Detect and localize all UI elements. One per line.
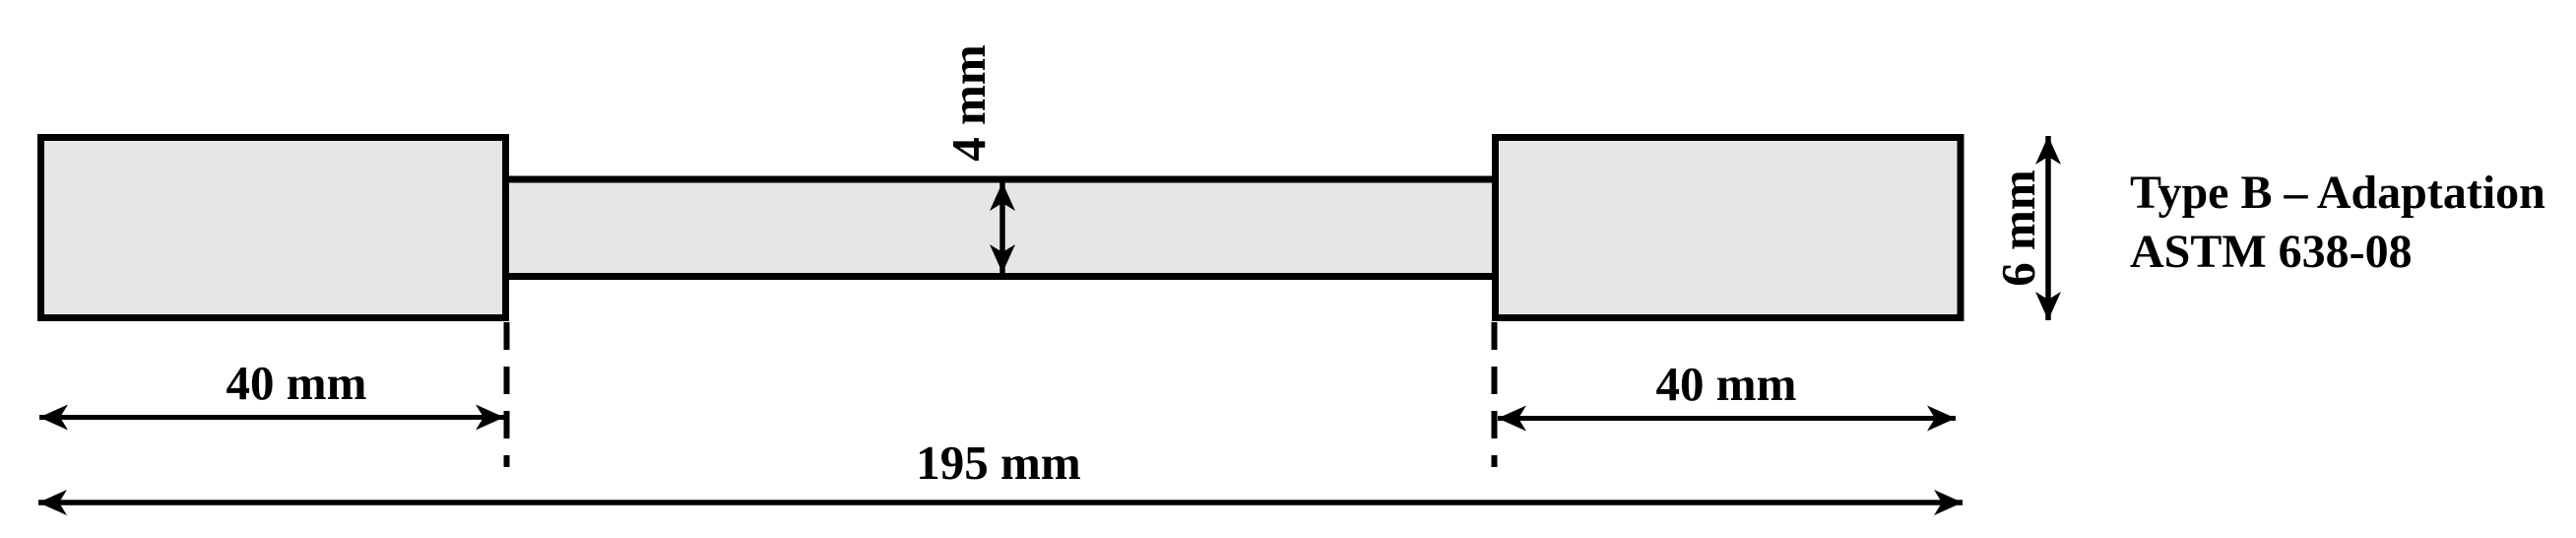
right grip tab rectangle: [1496, 138, 1962, 318]
svg-text:6 mm: 6 mm: [1991, 169, 2045, 286]
6 mm vertical dimension arrow: [2045, 136, 2051, 320]
right 40 mm dimension arrow: [1498, 416, 1956, 421]
gauge bar bottom edge line: [505, 273, 1496, 280]
4 mm vertical dimension arrow: [999, 182, 1005, 273]
svg-text:Type B – Adaptation: Type B – Adaptation: [2130, 167, 2545, 219]
right dashed extension line: [1492, 322, 1498, 467]
svg-text:ASTM 638-08: ASTM 638-08: [2130, 226, 2413, 278]
left dashed extension line: [504, 322, 510, 467]
svg-text:195 mm: 195 mm: [916, 436, 1080, 490]
narrow gauge section bar fill: [505, 183, 1496, 274]
gauge bar top edge line: [505, 176, 1496, 183]
left grip tab rectangle: [41, 138, 506, 318]
195 mm overall length dimension arrow: [38, 500, 1963, 505]
svg-text:40 mm: 40 mm: [1656, 357, 1797, 411]
svg-text:4 mm: 4 mm: [941, 44, 996, 161]
left 40 mm dimension arrow: [39, 415, 504, 420]
svg-text:40 mm: 40 mm: [226, 356, 367, 410]
